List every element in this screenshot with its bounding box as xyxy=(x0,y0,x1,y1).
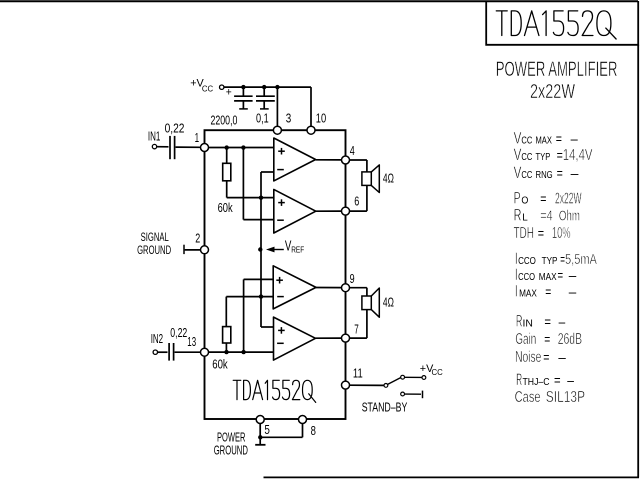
wire opamp C+ left xyxy=(244,278,274,280)
svg-text:MAX: MAX xyxy=(519,288,537,300)
svg-text:SIL13P: SIL13P xyxy=(546,389,585,406)
svg-text:CC: CC xyxy=(202,84,214,93)
svg-text:MAX: MAX xyxy=(536,134,552,146)
title box xyxy=(486,1,638,45)
pin 4 xyxy=(342,156,350,164)
svg-text:IN2: IN2 xyxy=(151,332,163,346)
terminal +Vcc top xyxy=(220,85,224,89)
capacitor C4 0,22 xyxy=(168,343,170,361)
svg-text:10%: 10% xyxy=(552,225,571,242)
IC label TDA1552Q xyxy=(233,380,316,402)
wire node1 to opamp A+ xyxy=(209,147,274,149)
bottom border line xyxy=(264,476,640,478)
svg-text:TYP: TYP xyxy=(536,151,551,163)
svg-text:Gain: Gain xyxy=(515,331,536,348)
wire vref to opamp A- xyxy=(261,171,274,173)
svg-text:RNG: RNG xyxy=(536,169,553,181)
svg-text:7: 7 xyxy=(354,321,359,336)
wire fb down xyxy=(242,148,244,220)
svg-text:0,22: 0,22 xyxy=(165,120,185,135)
wire R1 to opamp B+ xyxy=(227,197,274,199)
junction pin13-fb xyxy=(241,350,245,354)
svg-text:26dB: 26dB xyxy=(558,331,582,348)
opamp A plus xyxy=(278,150,285,152)
op-amp B xyxy=(274,189,316,233)
svg-text:1: 1 xyxy=(195,130,200,145)
junction vref-B+ xyxy=(259,196,263,200)
opamp A minus xyxy=(277,169,284,171)
svg-text:=: = xyxy=(556,131,562,146)
resistor R2 60k xyxy=(223,327,231,343)
resistor R1 60k xyxy=(223,163,231,181)
switch lever xyxy=(388,378,401,385)
svg-text:Case: Case xyxy=(515,389,541,406)
wire pin13 to opamp D- xyxy=(209,351,274,353)
pin 10 xyxy=(307,126,315,134)
svg-text:9: 9 xyxy=(350,271,355,286)
wire speaker1 to pin6 xyxy=(366,185,368,211)
svg-text:REF: REF xyxy=(291,245,304,255)
wire pin4 to speaker1 xyxy=(350,159,367,161)
svg-text:10: 10 xyxy=(316,111,326,126)
svg-text:2200,0: 2200,0 xyxy=(211,113,238,128)
wire R1 top lead xyxy=(226,148,228,164)
svg-text:O: O xyxy=(521,195,528,207)
svg-text:=: = xyxy=(558,268,564,283)
wire vref rail vertical xyxy=(260,172,262,327)
wire pin5 to pin8 xyxy=(260,436,302,438)
svg-text:GROUND: GROUND xyxy=(214,442,248,457)
speaker LS2 xyxy=(362,296,371,310)
opamp D plus xyxy=(278,329,285,331)
svg-text:Noise: Noise xyxy=(515,349,541,366)
svg-text:SIGNAL: SIGNAL xyxy=(141,232,170,244)
svg-text:6: 6 xyxy=(354,193,359,208)
svg-text:8: 8 xyxy=(311,423,316,438)
IC TDA1552Q body xyxy=(205,130,346,419)
svg-text:14,4V: 14,4V xyxy=(563,147,593,164)
wire IN1 to C3 xyxy=(157,146,169,148)
svg-text:–: – xyxy=(558,350,566,365)
svg-text:5: 5 xyxy=(264,422,270,437)
wire vref to opamp D+ xyxy=(261,326,274,328)
svg-text:I: I xyxy=(515,282,517,301)
junction node1-fb xyxy=(241,145,245,149)
svg-text:=: = xyxy=(554,373,561,388)
junction vref arrow xyxy=(258,247,262,251)
switch throw contact upper xyxy=(401,375,405,379)
svg-text:CC: CC xyxy=(521,152,532,163)
wire fb to opamp B- xyxy=(243,219,273,221)
pin 9 xyxy=(342,284,350,292)
svg-text:4Ω: 4Ω xyxy=(383,171,394,185)
op-amp D xyxy=(274,317,316,360)
pin 2 xyxy=(201,246,209,254)
opamp B minus xyxy=(277,219,284,221)
svg-text:TDH: TDH xyxy=(514,225,534,242)
vref arrow xyxy=(266,247,275,253)
svg-text:R: R xyxy=(516,311,523,330)
svg-text:11: 11 xyxy=(353,365,363,380)
wire signal ground to pin 2 xyxy=(185,249,201,251)
opamp D minus xyxy=(277,342,284,344)
pin 5 xyxy=(256,416,264,424)
title text TDA1552Q xyxy=(496,11,616,39)
pin 6 xyxy=(342,207,350,215)
svg-text:CC: CC xyxy=(521,135,532,146)
pin 8 xyxy=(299,416,307,424)
svg-text:THJ–C: THJ–C xyxy=(523,376,550,388)
svg-text:=: = xyxy=(543,350,549,365)
wire fb2 vertical xyxy=(243,279,245,352)
svg-text:CC: CC xyxy=(521,170,532,181)
svg-text:=: = xyxy=(538,226,544,241)
svg-text:=: = xyxy=(545,285,551,300)
opamp C minus xyxy=(277,296,284,298)
junction node1-R1 xyxy=(225,145,229,149)
pin 11 xyxy=(342,381,350,389)
svg-text:5,5mA: 5,5mA xyxy=(565,251,597,268)
svg-text:L: L xyxy=(522,212,528,224)
opamp C plus xyxy=(276,279,283,281)
svg-text:–: – xyxy=(567,373,574,388)
top border line xyxy=(0,0,638,2)
svg-text:13: 13 xyxy=(187,334,196,349)
wire standby stub xyxy=(405,393,422,395)
pin 1 xyxy=(201,144,209,152)
terminal standby stub xyxy=(422,391,424,399)
svg-text:0,22: 0,22 xyxy=(170,325,187,340)
capacitor C3 0,22 xyxy=(169,136,171,159)
svg-text:2x22W: 2x22W xyxy=(530,80,575,103)
svg-text:CCO: CCO xyxy=(518,271,535,283)
terminal +Vcc switch xyxy=(422,376,426,380)
wire +Vcc rail xyxy=(224,86,311,88)
pin 7 xyxy=(342,334,350,342)
junction cap C1 top xyxy=(241,85,245,89)
ground symbol xyxy=(255,444,265,446)
op-amp C xyxy=(273,266,316,309)
svg-text:CCO: CCO xyxy=(518,255,536,267)
wire R1 bottom lead xyxy=(226,181,228,198)
svg-text:IN1: IN1 xyxy=(148,129,161,143)
junction pin3 branch xyxy=(275,85,279,89)
wire C4 to pin 13 xyxy=(175,351,201,353)
svg-text:Ohm: Ohm xyxy=(559,208,580,225)
wire pin11 to switch xyxy=(350,384,385,386)
wire C- down to R2 xyxy=(225,297,227,327)
op-amp A xyxy=(274,138,316,181)
terminal IN2 xyxy=(153,350,157,354)
junction power ground xyxy=(258,435,262,439)
svg-text:0,1: 0,1 xyxy=(256,110,269,125)
wire opamp C- left xyxy=(226,296,273,298)
svg-text:=: = xyxy=(540,192,546,207)
svg-text:R: R xyxy=(514,206,522,225)
svg-text:60k: 60k xyxy=(218,200,233,215)
speaker LS1 xyxy=(362,172,371,186)
svg-text:IN: IN xyxy=(523,317,533,329)
wire R2 bottom lead xyxy=(225,343,227,352)
wire IN2 to C4 xyxy=(158,351,168,353)
svg-text:–: – xyxy=(569,285,577,300)
svg-text:STAND–BY: STAND–BY xyxy=(362,399,408,414)
svg-text:–: – xyxy=(559,314,566,329)
junction cap C2 top xyxy=(262,85,266,89)
switch throw contact lower xyxy=(401,392,405,396)
right border line xyxy=(637,45,639,478)
svg-text:POWER AMPLIFIER: POWER AMPLIFIER xyxy=(496,58,618,81)
svg-text:R: R xyxy=(516,370,522,389)
svg-text:=: = xyxy=(544,332,550,347)
wire to pin 10 xyxy=(310,87,312,127)
svg-text:TYP: TYP xyxy=(542,255,558,267)
svg-text:–: – xyxy=(569,268,577,283)
opamp B plus xyxy=(278,202,285,204)
pin 13 circle xyxy=(201,348,209,356)
terminal signal ground xyxy=(183,245,185,254)
svg-text:–: – xyxy=(571,166,579,181)
svg-text:2x22W: 2x22W xyxy=(555,191,582,208)
wire opamp B out xyxy=(316,210,342,212)
svg-text:+: + xyxy=(226,87,232,99)
wire opamp C out xyxy=(316,287,342,289)
wire speaker2 to pin7 xyxy=(366,310,368,339)
wire C3 to pin 1 xyxy=(176,146,201,148)
svg-text:=4: =4 xyxy=(540,208,553,225)
svg-text:4: 4 xyxy=(350,143,355,158)
svg-text:3: 3 xyxy=(286,111,292,126)
svg-text:GROUND: GROUND xyxy=(137,245,171,257)
wire opamp A out xyxy=(316,159,342,161)
wire opamp D out xyxy=(316,337,342,339)
wire pin9 to speaker2 xyxy=(350,287,367,289)
svg-text:4Ω: 4Ω xyxy=(383,296,394,310)
svg-text:=: = xyxy=(544,314,551,329)
svg-text:–: – xyxy=(571,131,579,146)
wire switch to +Vcc xyxy=(405,376,422,378)
terminal IN1 xyxy=(152,144,156,148)
svg-text:=: = xyxy=(557,166,563,181)
svg-text:60k: 60k xyxy=(212,357,228,372)
svg-text:2: 2 xyxy=(195,230,200,245)
capacitor C1 2200,0 xyxy=(242,87,244,96)
wire to pin 3 xyxy=(276,87,278,127)
svg-text:CC: CC xyxy=(432,368,444,377)
svg-text:P: P xyxy=(514,189,521,208)
capacitor C2 0,1 xyxy=(263,87,265,96)
junction vref-C- xyxy=(259,294,263,298)
svg-text:MAX: MAX xyxy=(539,271,557,283)
pin 3 xyxy=(273,126,281,134)
switch pole contact xyxy=(384,384,388,388)
junction pin13-R2 xyxy=(224,350,228,354)
wire pin5 down xyxy=(259,424,261,445)
